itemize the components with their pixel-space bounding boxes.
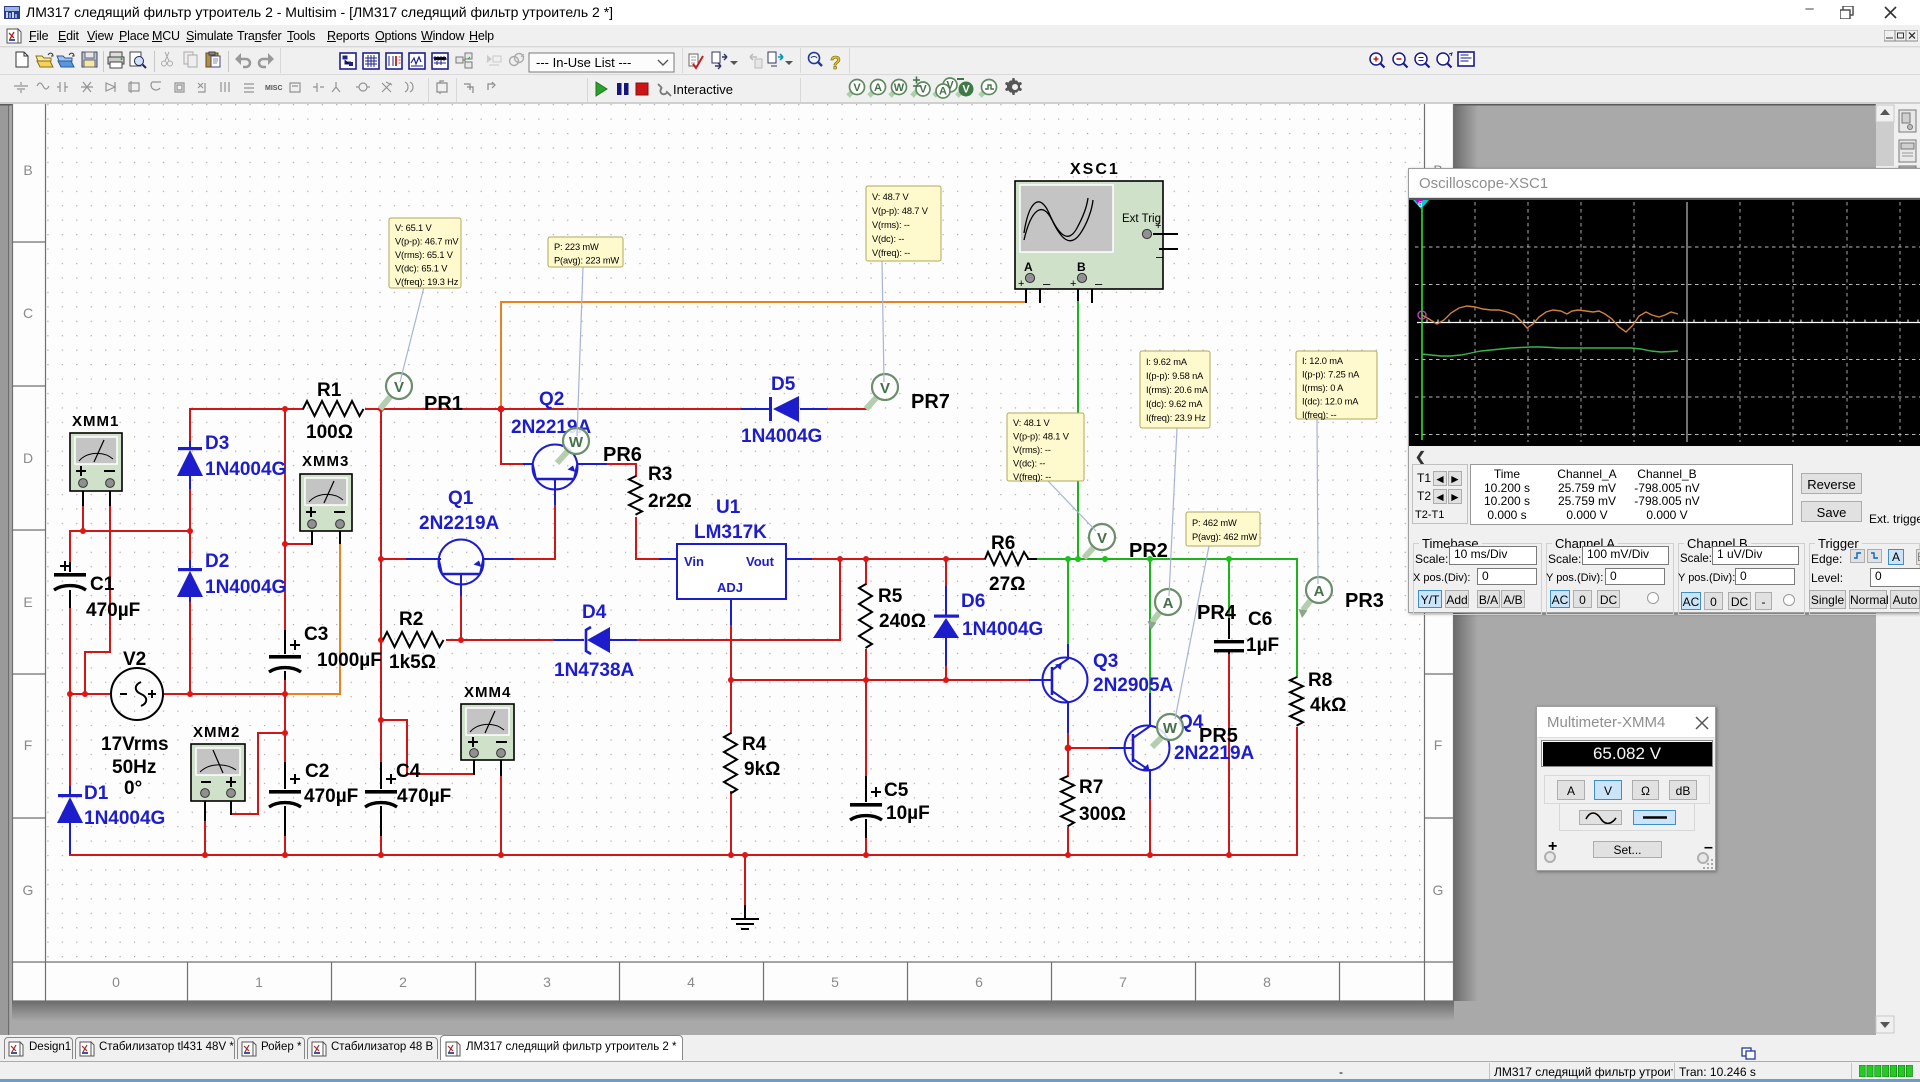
- svg-text:U1: U1: [716, 497, 741, 518]
- svg-text:1N4004G: 1N4004G: [741, 426, 822, 447]
- transistor Q3: [1042, 651, 1174, 703]
- svg-text:V(freq): --: V(freq): --: [1013, 472, 1051, 482]
- svg-text:XMM3: XMM3: [302, 453, 349, 470]
- svg-text:W: W: [1163, 720, 1178, 737]
- svg-text:Interactive: Interactive: [673, 82, 733, 97]
- transistor Q4: [1125, 712, 1255, 771]
- svg-text:P(avg): 462 mW: P(avg): 462 mW: [1192, 532, 1257, 542]
- svg-text:PR5: PR5: [1199, 725, 1238, 747]
- regulator U1 LM317K: [677, 497, 786, 599]
- probe PR5: [1152, 714, 1238, 747]
- wire ADJ row: [731, 679, 1030, 681]
- open: [36, 53, 53, 67]
- svg-text:Vout: Vout: [746, 554, 775, 569]
- svg-text:XSC1: XSC1: [1070, 161, 1120, 178]
- ground: [731, 905, 759, 929]
- green cursor: [1421, 204, 1423, 440]
- svg-text:R6: R6: [991, 533, 1015, 554]
- channel A cursor circle: [1418, 311, 1426, 319]
- diode D6: [933, 586, 1043, 666]
- svg-text:–: –: [1156, 249, 1164, 264]
- wire ground stub: [744, 855, 746, 905]
- svg-text:V: V: [962, 84, 970, 96]
- svg-text:470µF: 470µF: [304, 786, 358, 807]
- svg-text:V: V: [1097, 530, 1107, 547]
- wire R7 leads: [1067, 748, 1069, 855]
- graticule: [1415, 202, 1920, 442]
- svg-text:300Ω: 300Ω: [1079, 804, 1126, 825]
- svg-text:I(p-p): 7.25 nA: I(p-p): 7.25 nA: [1302, 370, 1360, 380]
- svg-text:D1: D1: [84, 783, 109, 804]
- probe PR4: [1148, 589, 1237, 630]
- wire C1 column: [69, 531, 71, 786]
- find: [809, 53, 823, 67]
- svg-text:V(p-p): 48.7 V: V(p-p): 48.7 V: [872, 206, 929, 216]
- callout note PR6: [548, 237, 623, 267]
- svg-text:Q2: Q2: [539, 389, 564, 410]
- svg-text:1N4004G: 1N4004G: [84, 808, 165, 829]
- svg-text:V(freq): --: V(freq): --: [872, 248, 910, 258]
- oscilloscope XSC1 icon: [1015, 161, 1178, 291]
- probe PR6: [557, 428, 642, 466]
- svg-text:1µF: 1µF: [1246, 635, 1279, 656]
- svg-text:R1: R1: [317, 380, 342, 401]
- save: [82, 52, 97, 67]
- wire Vout bus: [786, 558, 813, 560]
- svg-text:R7: R7: [1079, 777, 1103, 798]
- svg-text:R4: R4: [742, 734, 767, 755]
- svg-text:V(rms): 65.1 V: V(rms): 65.1 V: [395, 250, 454, 260]
- print: [108, 52, 124, 68]
- diode D5: [741, 374, 827, 447]
- svg-text:I(rms): 0 A: I(rms): 0 A: [1302, 383, 1344, 393]
- svg-text:V: V: [880, 380, 890, 397]
- capacitor C3: [269, 624, 382, 680]
- wire Q3 emitter green: [1067, 559, 1069, 645]
- callout note PR7: [866, 186, 941, 261]
- svg-text:V: V: [946, 80, 954, 92]
- svg-text:1N4004G: 1N4004G: [205, 577, 286, 598]
- wire D1 lower blue: [69, 824, 71, 855]
- svg-text:Q1: Q1: [448, 488, 474, 509]
- svg-text:I(p-p): 9.58 nA: I(p-p): 9.58 nA: [1146, 371, 1204, 381]
- svg-text:I(dc): 9.62 mA: I(dc): 9.62 mA: [1146, 399, 1203, 409]
- wire R5 leads: [865, 559, 867, 680]
- svg-text:0°: 0°: [124, 778, 142, 799]
- wire R4 leads: [730, 680, 732, 855]
- svg-text:V: V: [394, 379, 404, 396]
- svg-text:F: F: [1434, 737, 1443, 753]
- wire D3-D2 column: [189, 409, 191, 694]
- resistor R2: [383, 609, 444, 673]
- wire C3 column: [284, 409, 286, 855]
- svg-text:9kΩ: 9kΩ: [744, 759, 780, 780]
- svg-text:470µF: 470µF: [86, 600, 140, 621]
- svg-text:ADJ: ADJ: [717, 580, 743, 595]
- svg-text:B: B: [23, 162, 32, 178]
- svg-text:G: G: [1433, 882, 1444, 898]
- svg-text:V(rms): --: V(rms): --: [872, 220, 910, 230]
- toolbar row 1: [0, 47, 1920, 76]
- svg-text:C4: C4: [396, 761, 421, 782]
- undo: [235, 53, 250, 67]
- svg-text:C3: C3: [304, 624, 328, 645]
- callout note PR3: [1296, 351, 1377, 420]
- svg-text:R3: R3: [648, 464, 672, 485]
- svg-text:V(dc): --: V(dc): --: [872, 234, 904, 244]
- simulate toolbar: [588, 78, 801, 102]
- wire XMM4 route: [381, 720, 501, 855]
- ac source V2: [101, 649, 169, 799]
- svg-text:C: C: [23, 305, 33, 321]
- wire C6 column: [1228, 559, 1230, 618]
- forward annotate: [768, 52, 783, 66]
- multimeter XMM1: [70, 413, 122, 491]
- axis with ticks: [1417, 322, 1920, 324]
- svg-text:I: 12.0 mA: I: 12.0 mA: [1302, 356, 1344, 366]
- svg-text:PR7: PR7: [911, 391, 950, 413]
- capacitor C5: [850, 776, 930, 838]
- open sample: [57, 53, 74, 67]
- svg-text:I(rms): 20.6 mA: I(rms): 20.6 mA: [1146, 385, 1209, 395]
- svg-text:PR6: PR6: [603, 444, 642, 466]
- svg-text:+: +: [1070, 278, 1076, 290]
- trigger marker: [1413, 200, 1429, 209]
- svg-text:2r2Ω: 2r2Ω: [648, 491, 692, 512]
- resistor R1: [303, 380, 364, 443]
- resistor R8: [1290, 670, 1346, 726]
- svg-text:W: W: [569, 434, 584, 451]
- svg-text:A: A: [874, 82, 882, 94]
- probe toolbar: [848, 77, 1022, 99]
- sheet: [12, 104, 1454, 1001]
- resistor R7: [1061, 776, 1126, 826]
- capacitor C6: [1214, 609, 1279, 656]
- resistor R3: [629, 464, 692, 515]
- svg-text:LM317K: LM317K: [694, 522, 767, 543]
- status bar: [0, 1061, 1920, 1080]
- transistor Q2: [511, 389, 592, 490]
- junction dots red: [67, 406, 1232, 858]
- multimeter XMM3: [300, 453, 352, 531]
- svg-text:XMM2: XMM2: [193, 724, 240, 741]
- wire XMM1 stubs: [83, 489, 110, 505]
- callout leader lines: [400, 261, 1318, 719]
- callout note PR2: [1007, 413, 1084, 482]
- capacitor C4: [365, 761, 451, 836]
- preview: [130, 52, 146, 68]
- diode D3: [177, 433, 286, 489]
- svg-text:1N4004G: 1N4004G: [962, 619, 1043, 640]
- svg-text:Vin: Vin: [684, 554, 704, 569]
- svg-text:XMM1: XMM1: [72, 413, 119, 430]
- wire Q2 base: [501, 409, 524, 464]
- capacitor C1: [54, 561, 140, 621]
- svg-text:V(dc): 65.1 V: V(dc): 65.1 V: [395, 264, 448, 274]
- svg-text:1N4738A: 1N4738A: [554, 660, 635, 681]
- svg-text:4: 4: [687, 974, 695, 990]
- svg-text:C6: C6: [1248, 609, 1272, 630]
- svg-text:1000µF: 1000µF: [317, 650, 382, 671]
- svg-text:I(freq): --: I(freq): --: [1302, 410, 1337, 420]
- svg-text:2N2219A: 2N2219A: [419, 513, 500, 534]
- group boxes: [1413, 543, 1542, 615]
- svg-text:V2: V2: [123, 649, 146, 670]
- svg-text:470µF: 470µF: [397, 786, 451, 807]
- transistor Q1: [419, 488, 500, 585]
- svg-text:D6: D6: [961, 591, 985, 612]
- copy (disabled): [184, 52, 197, 67]
- export: [712, 52, 727, 69]
- probe PR2: [1084, 524, 1168, 562]
- menu bar: [0, 25, 1920, 47]
- svg-text:240Ω: 240Ω: [879, 611, 926, 632]
- svg-text:V(p-p): 48.1 V: V(p-p): 48.1 V: [1013, 432, 1070, 442]
- probe PR1: [380, 373, 463, 415]
- svg-text:R8: R8: [1308, 670, 1332, 691]
- svg-text:F: F: [24, 737, 33, 753]
- callout note PR5: [1186, 512, 1260, 546]
- wire XMM3 minus orange: [285, 545, 340, 694]
- svg-text:+: +: [1018, 278, 1024, 290]
- wire Q1 collector to Q2: [483, 558, 515, 560]
- redo: [259, 53, 274, 67]
- zener D4: [554, 602, 637, 681]
- resistor R5: [859, 584, 926, 648]
- svg-text:1: 1: [255, 974, 263, 990]
- wire XSC1 channel B green: [1077, 302, 1079, 559]
- svg-text:I(dc): 12.0 mA: I(dc): 12.0 mA: [1302, 397, 1359, 407]
- In-Use List combo: [529, 53, 674, 72]
- wire ground rail: [70, 854, 1297, 856]
- svg-text:XMM4: XMM4: [464, 684, 511, 701]
- resistor R6: [985, 533, 1029, 595]
- wire U1 ADJ: [730, 599, 732, 626]
- svg-text:G: G: [23, 882, 34, 898]
- channel B trace (green): [1422, 347, 1678, 356]
- wire R8 column: [1296, 559, 1298, 677]
- svg-text:100Ω: 100Ω: [306, 422, 353, 443]
- svg-text:PR1: PR1: [424, 393, 463, 415]
- probe PR3: [1299, 577, 1384, 618]
- vertical scrollbar: [1876, 104, 1895, 1036]
- svg-text:R5: R5: [878, 586, 903, 607]
- channel A trace (orange): [1422, 306, 1678, 332]
- svg-text:I: 9.62 mA: I: 9.62 mA: [1146, 357, 1188, 367]
- wire Q1 base: [381, 558, 407, 560]
- wire XMM3 plus: [285, 543, 312, 545]
- multimeter XMM4: [461, 684, 514, 760]
- svg-text:5: 5: [831, 974, 839, 990]
- svg-text:A: A: [1024, 260, 1033, 274]
- wire PR2 green bus: [1038, 558, 1297, 560]
- svg-text:7: 7: [1119, 974, 1127, 990]
- svg-text:W: W: [894, 82, 905, 94]
- zoom toolbar group: [1370, 53, 1385, 68]
- svg-text:Q3: Q3: [1093, 651, 1118, 672]
- svg-text:0: 0: [112, 974, 120, 990]
- wire R2 to D4: [447, 559, 840, 640]
- svg-text:–: –: [1043, 276, 1051, 291]
- multimeter window XMM4: [1536, 706, 1716, 871]
- svg-text:D4: D4: [582, 602, 607, 623]
- wire Q4 emitter: [1149, 800, 1151, 855]
- probe PR7: [866, 374, 950, 413]
- svg-text:C2: C2: [305, 761, 329, 782]
- svg-text:V(dc): --: V(dc): --: [1013, 459, 1045, 469]
- wire C5 leads: [865, 680, 867, 855]
- wire top bus red: [190, 408, 866, 410]
- wire V2 leads: [70, 693, 285, 695]
- svg-text:V: 48.7 V: V: 48.7 V: [872, 192, 909, 202]
- toolbar row 2: [0, 76, 1920, 104]
- capacitor C2: [269, 761, 358, 836]
- svg-text:D: D: [23, 450, 33, 466]
- svg-text:6: 6: [975, 974, 983, 990]
- svg-text:I(freq): 23.9 Hz: I(freq): 23.9 Hz: [1146, 413, 1206, 423]
- junction dots green: [1065, 556, 1232, 562]
- svg-text:V: 48.1 V: V: 48.1 V: [1013, 418, 1050, 428]
- svg-text:MISC: MISC: [265, 85, 283, 92]
- svg-text:PR2: PR2: [1129, 540, 1168, 562]
- wire XMM1 bus: [70, 505, 190, 694]
- svg-text:10µF: 10µF: [886, 803, 930, 824]
- svg-text:V: V: [919, 84, 927, 96]
- svg-text:D2: D2: [205, 551, 229, 572]
- svg-text:V(freq): 19.3 Hz: V(freq): 19.3 Hz: [395, 277, 459, 287]
- svg-text:D5: D5: [771, 374, 796, 395]
- svg-text:A: A: [1314, 583, 1325, 600]
- callout note PR4: [1140, 351, 1210, 428]
- svg-text:V(p-p): 46.7 mV: V(p-p): 46.7 mV: [395, 237, 459, 247]
- wire Q2 emitter to R3: [578, 463, 608, 465]
- svg-text:6: 6: [1418, 200, 1423, 209]
- svg-text:V: 65.1 V: V: 65.1 V: [395, 223, 432, 233]
- diode D2: [177, 551, 286, 602]
- back annotate (gray): [750, 54, 762, 68]
- svg-text:P(avg): 223 mW: P(avg): 223 mW: [554, 256, 619, 266]
- resistor R4: [724, 733, 780, 794]
- wire PR1 column: [380, 409, 382, 855]
- svg-text:B: B: [1077, 260, 1086, 274]
- wire Q4 collector: [1149, 559, 1151, 694]
- wire XSC1 stubs: [1026, 284, 1092, 302]
- wire XMM2 route: [205, 733, 285, 855]
- ERC check: [689, 54, 703, 68]
- wire D6 leads: [945, 559, 947, 680]
- multimeter XMM2: [191, 724, 245, 801]
- svg-text:–: –: [1095, 276, 1103, 291]
- svg-text:--- In-Use List ---: --- In-Use List ---: [536, 55, 631, 70]
- oscilloscope window XSC1: [1408, 168, 1920, 613]
- callout note PR1: [389, 218, 461, 288]
- svg-text:+: +: [1155, 220, 1161, 232]
- tab bar: [0, 1035, 1920, 1061]
- svg-text:2N2905A: 2N2905A: [1093, 675, 1174, 696]
- svg-text:8: 8: [1263, 974, 1271, 990]
- svg-text:P: 223 mW: P: 223 mW: [554, 242, 599, 252]
- new: [16, 52, 28, 67]
- svg-text:3: 3: [543, 974, 551, 990]
- svg-text:PR4: PR4: [1197, 602, 1237, 624]
- svg-text:50Hz: 50Hz: [112, 757, 156, 778]
- svg-text:E: E: [23, 594, 32, 610]
- svg-text:4kΩ: 4kΩ: [1310, 695, 1346, 716]
- wire XSC1 channel A orange: [501, 302, 1026, 409]
- svg-text:D3: D3: [205, 433, 229, 454]
- wire Q1 emitter: [460, 574, 462, 597]
- svg-text:2: 2: [399, 974, 407, 990]
- paste: [206, 52, 220, 67]
- svg-text:R2: R2: [399, 609, 423, 630]
- svg-text:1N4004G: 1N4004G: [205, 459, 286, 480]
- svg-text:V(rms): --: V(rms): --: [1013, 445, 1051, 455]
- wire R6 to green bus: [1028, 558, 1038, 560]
- svg-text:1k5Ω: 1k5Ω: [389, 652, 436, 673]
- svg-text:C5: C5: [884, 780, 909, 801]
- grayed pair: [487, 55, 501, 65]
- design toolbox icons (blue framed): [340, 53, 356, 69]
- title bar: [0, 0, 1920, 25]
- svg-text:V: V: [853, 82, 861, 94]
- svg-text:27Ω: 27Ω: [989, 574, 1025, 595]
- svg-text:P: 462 mW: P: 462 mW: [1192, 518, 1237, 528]
- svg-text:PR3: PR3: [1345, 590, 1384, 612]
- diode D1: [57, 783, 165, 829]
- svg-text:17Vrms: 17Vrms: [101, 734, 169, 755]
- wire Q3 to Q4 base: [1068, 747, 1110, 749]
- svg-text:?: ?: [830, 53, 841, 73]
- right instruments strip: [1895, 104, 1920, 1036]
- hierarchy icon: [456, 53, 472, 68]
- cut (disabled): [162, 52, 173, 66]
- svg-text:C1: C1: [90, 574, 115, 595]
- svg-text:A: A: [1163, 595, 1174, 612]
